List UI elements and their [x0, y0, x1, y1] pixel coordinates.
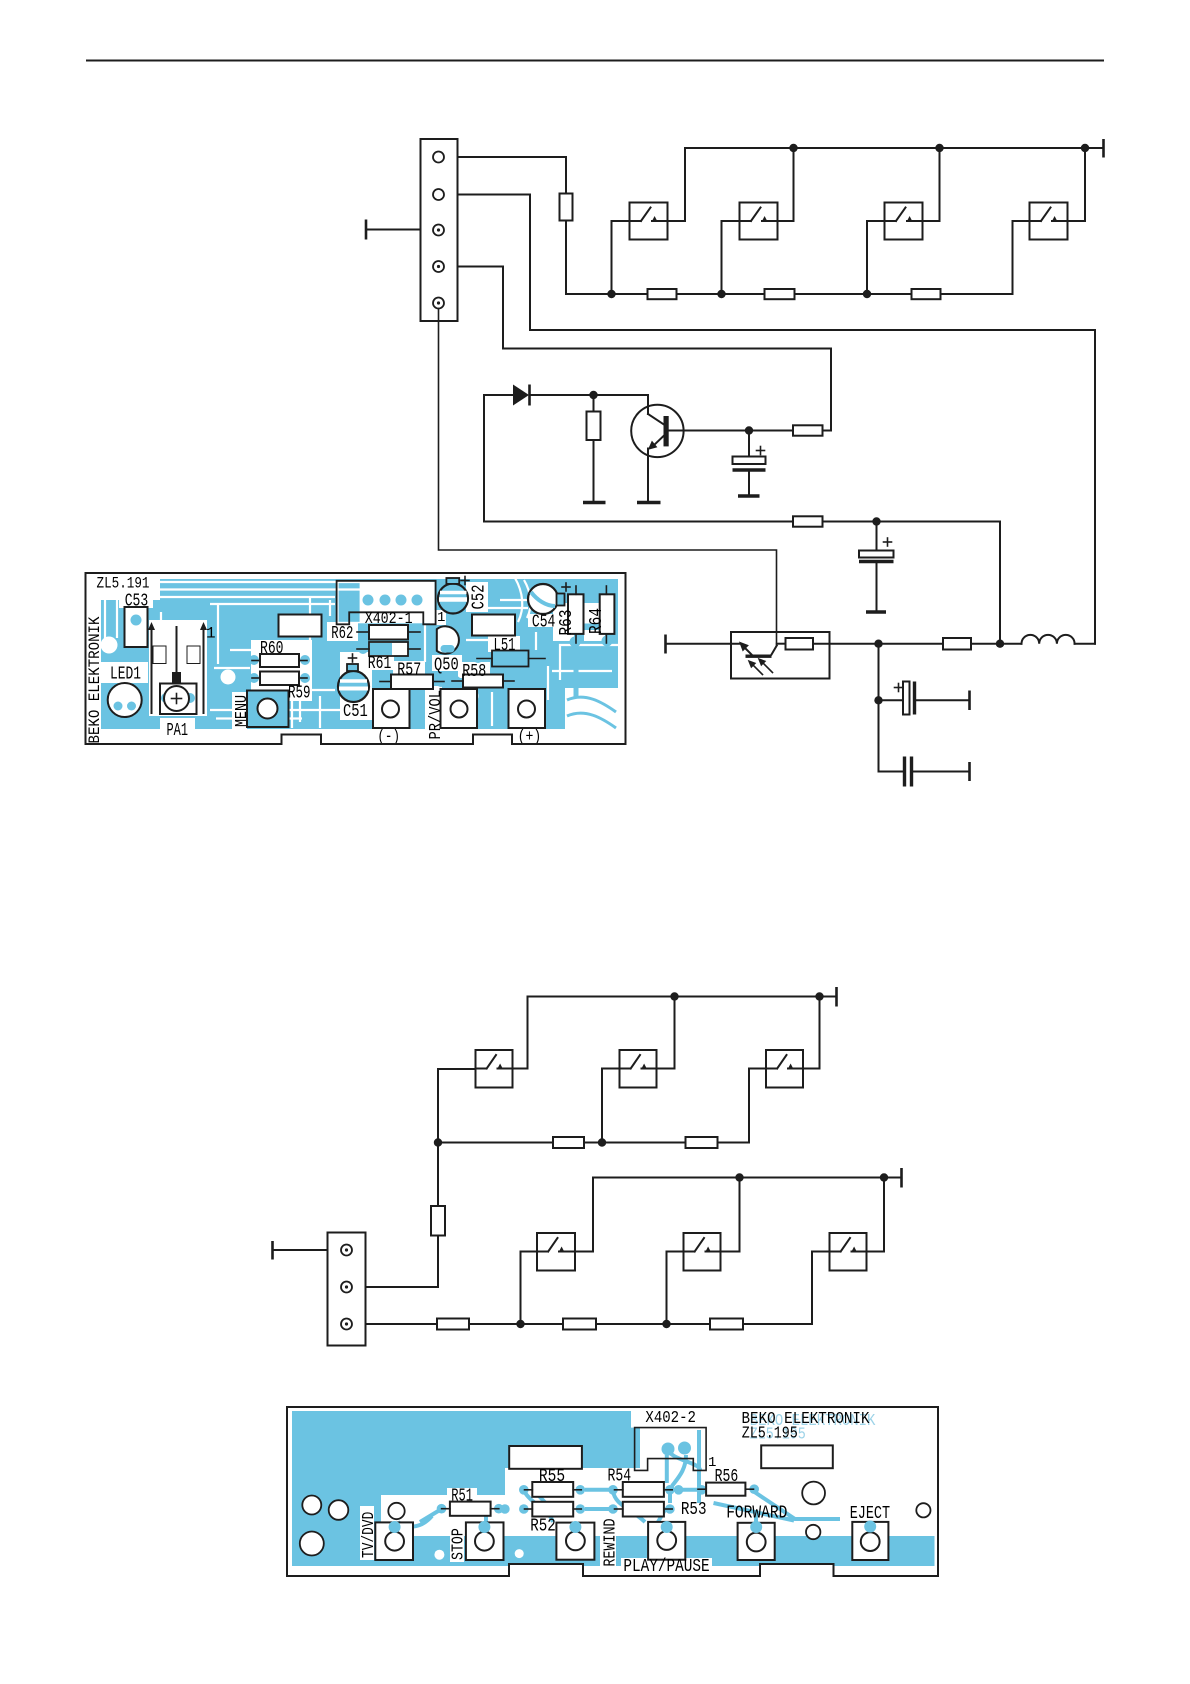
- resistor R58: [452, 675, 514, 688]
- resistor R60: [252, 654, 307, 667]
- pushbutton TV/DVD: [375, 1522, 413, 1560]
- pushbutton MENU: [247, 691, 289, 728]
- svg-text:TV/DVD: TV/DVD: [360, 1512, 379, 1558]
- wire pin1: [458, 157, 567, 194]
- svg-text:MENU: MENU: [233, 695, 252, 727]
- junction: [717, 290, 725, 298]
- resistor R51: [442, 1502, 499, 1516]
- pushbutton PR/VOL: [441, 689, 478, 728]
- wire mid rail: [438, 1142, 553, 1144]
- pads: [128, 580, 613, 688]
- resistor: [437, 1319, 469, 1330]
- PCB board ZL5.191: [86, 573, 626, 744]
- connector outline X402-1: [337, 581, 436, 625]
- mounting holes: [300, 1482, 931, 1556]
- junction: [872, 517, 880, 525]
- wire: [366, 1236, 439, 1288]
- svg-text:REWIND: REWIND: [602, 1519, 621, 1567]
- svg-text:C51: C51: [343, 702, 368, 722]
- diode: [484, 385, 648, 406]
- svg-text:C52: C52: [470, 585, 490, 610]
- wire: [469, 1323, 563, 1325]
- switch: [476, 997, 528, 1088]
- resistor R63: [568, 586, 584, 643]
- resistor R59: [252, 672, 307, 686]
- svg-text:BEKO ELEKTRONIK: BEKO ELEKTRONIK: [86, 616, 104, 744]
- component outline: [472, 615, 515, 636]
- switch: [521, 1178, 594, 1325]
- svg-text:R53: R53: [681, 1500, 707, 1520]
- terminal: [900, 1168, 903, 1188]
- junction: [1081, 144, 1089, 152]
- switch S3: [867, 148, 940, 294]
- terminal: [968, 762, 971, 781]
- resistor: [686, 1137, 718, 1148]
- capacitor C51: [338, 654, 369, 702]
- junction: [874, 640, 882, 648]
- svg-text:Q50: Q50: [434, 655, 459, 675]
- wire: [718, 1069, 767, 1143]
- switch S2: [722, 148, 794, 294]
- component outline: [761, 1445, 833, 1468]
- terminal: [1102, 139, 1105, 158]
- board outline ZL5.195: [287, 1407, 938, 1576]
- pushbutton (-): [373, 689, 410, 728]
- wire: [566, 221, 648, 295]
- component outline: [509, 1446, 582, 1469]
- ghost text: [750, 1411, 876, 1444]
- junction: [662, 1320, 670, 1328]
- connector X402-2: [328, 1233, 366, 1346]
- svg-text:R61: R61: [368, 654, 392, 674]
- svg-text:1: 1: [206, 625, 216, 643]
- junction: [670, 992, 678, 1000]
- IR receiver: [666, 632, 830, 679]
- resistor R54: [615, 1482, 673, 1497]
- wire rail: [528, 996, 837, 998]
- pushbutton PLAY/PAUSE: [648, 1522, 685, 1560]
- junction: [880, 1173, 888, 1181]
- wire: [823, 521, 1001, 523]
- resistor R55: [525, 1482, 582, 1497]
- resistor: [587, 395, 601, 501]
- resistor R56: [698, 1483, 754, 1496]
- wire top rail: [685, 147, 1104, 149]
- copper clearances: [98, 571, 632, 744]
- capacitor C52: [438, 577, 469, 614]
- pushbutton STOP: [466, 1522, 504, 1560]
- junction: [598, 1138, 606, 1146]
- switch: [602, 997, 675, 1143]
- capacitor: [905, 757, 970, 787]
- ground: [738, 494, 760, 497]
- resistor: [710, 1319, 743, 1330]
- switch S1: [612, 148, 686, 294]
- wire: [743, 1252, 830, 1325]
- wire: [941, 221, 1013, 294]
- junction: [516, 1320, 524, 1328]
- svg-text:C53: C53: [125, 592, 149, 612]
- capacitor: [879, 682, 970, 715]
- capacitor C53: [125, 607, 148, 647]
- resistor R52: [525, 1502, 582, 1517]
- svg-text:STOP: STOP: [449, 1528, 468, 1560]
- junction: [996, 640, 1004, 648]
- switch: [766, 997, 820, 1088]
- wire: [999, 522, 1001, 644]
- svg-text:R56: R56: [715, 1467, 739, 1487]
- potentiometer PA1: [148, 622, 207, 714]
- svg-text:L51: L51: [494, 636, 516, 656]
- svg-text:R55: R55: [539, 1467, 565, 1487]
- wire base: [668, 430, 793, 432]
- resistor R61: [357, 642, 420, 656]
- svg-text:PLAY/PAUSE: PLAY/PAUSE: [623, 1557, 709, 1577]
- svg-text:R54: R54: [608, 1466, 632, 1486]
- svg-text:R62: R62: [331, 624, 353, 644]
- pushbutton EJECT: [852, 1522, 888, 1560]
- svg-text:X402-2: X402-2: [645, 1408, 696, 1427]
- resistor: [563, 1319, 596, 1330]
- resistor: [431, 1206, 445, 1236]
- wire: [596, 1323, 710, 1325]
- svg-text:R64: R64: [587, 608, 607, 634]
- button pads: [389, 1521, 877, 1534]
- resistor: [765, 289, 795, 299]
- junction: [815, 992, 823, 1000]
- wire pin4: [458, 267, 832, 431]
- capacitor C54: [528, 583, 570, 614]
- svg-text:LED1: LED1: [110, 665, 141, 685]
- wire pin2: [458, 195, 1096, 644]
- ground: [637, 501, 661, 504]
- wire: [878, 644, 880, 701]
- svg-text:R60: R60: [260, 639, 284, 659]
- resistor R62: [357, 625, 420, 640]
- resistor R64: [600, 586, 615, 643]
- wire: [584, 1142, 686, 1144]
- transistor Q50: [437, 626, 459, 653]
- terminal: [273, 1241, 328, 1260]
- pushbutton (+): [509, 689, 546, 728]
- junction: [735, 1173, 743, 1181]
- wire: [795, 293, 912, 295]
- connector X402-1: [421, 139, 458, 321]
- svg-text:R52: R52: [530, 1517, 556, 1537]
- wire rail: [593, 1177, 902, 1179]
- resistor: [560, 194, 573, 221]
- resistor: [777, 638, 943, 650]
- inductor L51: [477, 651, 545, 667]
- resistor: [793, 516, 823, 526]
- LED LED1: [108, 683, 142, 717]
- resistor: [912, 289, 941, 299]
- svg-text:X402-1: X402-1: [365, 609, 413, 628]
- capacitor: [733, 431, 766, 495]
- junction: [789, 144, 797, 152]
- inductor: [1000, 635, 1095, 644]
- terminal: [835, 987, 838, 1007]
- junction: [745, 426, 753, 434]
- wire: [484, 395, 793, 522]
- pads: [437, 1442, 759, 1514]
- svg-text:R51: R51: [451, 1487, 473, 1507]
- wire: [677, 293, 765, 295]
- wire: [879, 700, 904, 771]
- svg-text:C54: C54: [532, 612, 555, 632]
- board outline ZL5.191: [86, 573, 626, 744]
- svg-text:R63: R63: [557, 610, 577, 636]
- svg-text:PR/VOL: PR/VOL: [427, 690, 446, 740]
- traces: [398, 1430, 840, 1528]
- resistor: [553, 1137, 584, 1148]
- junction: [434, 1138, 442, 1146]
- wire: [438, 1069, 476, 1206]
- junction: [874, 696, 882, 704]
- switch S4: [1013, 148, 1086, 240]
- pushbutton REWIND: [556, 1523, 594, 1560]
- ground: [583, 501, 606, 504]
- wire pin5: [439, 309, 777, 646]
- switch: [667, 1178, 740, 1325]
- svg-text:R57: R57: [397, 661, 421, 681]
- copper clearances: [360, 1408, 834, 1576]
- connector outline X402-2: [635, 1428, 707, 1471]
- switch: [830, 1178, 885, 1271]
- capacitor: [859, 522, 894, 611]
- svg-text:ZL5.191: ZL5.191: [97, 575, 150, 593]
- resistor: [943, 638, 1000, 650]
- terminal: [366, 220, 421, 240]
- transistor: [631, 395, 683, 501]
- svg-text:1: 1: [437, 610, 445, 626]
- wire pin3: [366, 1323, 438, 1325]
- resistor R53: [615, 1502, 673, 1517]
- svg-text:R59: R59: [288, 684, 311, 704]
- pushbutton FORWARD: [738, 1523, 775, 1560]
- ground: [866, 610, 886, 613]
- resistor: [648, 289, 677, 299]
- trace: [571, 582, 612, 587]
- PCB board ZL5.195: [287, 1407, 938, 1576]
- svg-text:R58: R58: [462, 662, 486, 682]
- resistor R57: [380, 675, 444, 690]
- component outline: [279, 615, 322, 637]
- resistor: [793, 425, 823, 435]
- svg-text:EJECT: EJECT: [850, 1504, 891, 1524]
- terminal: [968, 691, 971, 711]
- junction: [863, 290, 871, 298]
- junction: [589, 391, 597, 399]
- junction: [607, 290, 615, 298]
- svg-text:FORWARD: FORWARD: [726, 1503, 787, 1523]
- svg-text:PA1: PA1: [167, 721, 189, 741]
- junction: [935, 144, 943, 152]
- svg-text:ZL5.195: ZL5.195: [742, 1424, 798, 1443]
